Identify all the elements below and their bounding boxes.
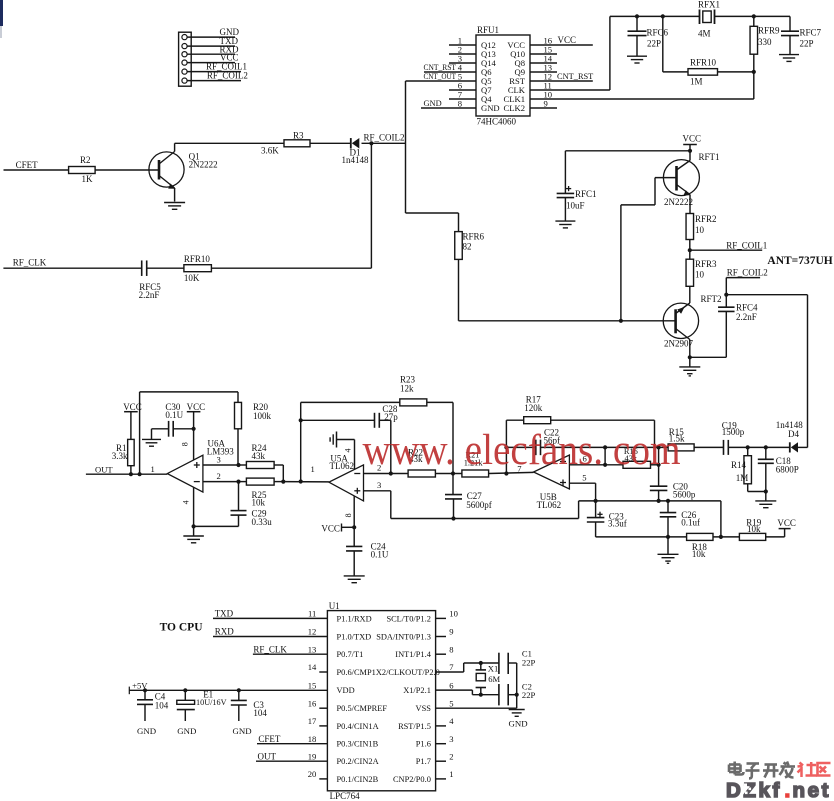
svg-text:P1.1/RXD: P1.1/RXD (337, 614, 372, 623)
node CNT_OUT at pin5 (406, 72, 477, 81)
wire CFET to R2 (4, 169, 69, 171)
svg-text:RF_COIL2: RF_COIL2 (727, 268, 768, 278)
wire U1 pin4 stub (436, 725, 446, 727)
junction dot U5B feedback takeoff (504, 471, 508, 475)
wire C19 to D4 (728, 446, 790, 448)
wire mid rail left drop (578, 501, 580, 519)
svg-text:1M: 1M (736, 473, 749, 483)
U5B pin6 number (583, 454, 588, 464)
resistor R22 43k (408, 447, 435, 477)
resistor RFR2 10 (686, 214, 716, 240)
node +5V (129, 680, 148, 694)
op-amp U6A LM393 (167, 438, 234, 492)
ground label at C4 (137, 726, 156, 736)
U1 right pin label P1.7 (416, 757, 431, 766)
label VCC (220, 53, 239, 63)
diode D1 1n4148 (342, 138, 370, 165)
svg-text:2.2nF: 2.2nF (736, 312, 757, 322)
wire pin3 down (390, 491, 392, 519)
junction dot C28 branch (299, 418, 303, 422)
svg-text:12k: 12k (400, 384, 414, 394)
svg-text:TO CPU: TO CPU (160, 622, 204, 634)
U1 right pin label SDA/INT0/P1.3 (376, 633, 431, 642)
svg-text:10: 10 (695, 225, 705, 235)
node OUT at pin19 (256, 751, 327, 761)
capacitor C1 22P (499, 649, 536, 675)
resistor R18 10k (687, 533, 713, 559)
crystal X1 6M (476, 663, 501, 695)
U1 right pin label P1.6 (416, 740, 431, 749)
svg-text:5: 5 (582, 473, 586, 483)
junction dot C26 bottom (666, 535, 670, 539)
RFU1 pin number 12 (544, 72, 553, 82)
svg-text:0.33u: 0.33u (252, 517, 273, 527)
wire RFU1 pin9 stub (530, 107, 557, 109)
resistor RFR6 82 (455, 231, 485, 259)
wire RFR6 to RFT2 base row (458, 259, 460, 320)
resistor R15 1.5k (659, 427, 695, 451)
label TO CPU (160, 622, 204, 634)
U1 pin number 19 (308, 751, 317, 761)
diode D4 1n4148 (776, 420, 804, 452)
svg-text:22P: 22P (800, 39, 814, 49)
resistor R14 1M (731, 447, 751, 491)
U1 left pin label P0.6/CMP1X2/CLKOUT/P2.0 (337, 668, 440, 677)
svg-text:10k: 10k (252, 498, 266, 508)
label RXD (220, 44, 240, 54)
node TXD (213, 609, 327, 619)
RFU1 pin number 13 (544, 63, 553, 73)
logo char qu (818, 763, 831, 776)
svg-text:CNT_RST: CNT_RST (424, 63, 457, 72)
svg-text:10U/16V: 10U/16V (196, 698, 227, 707)
ground sideways at U5A top (330, 432, 354, 470)
svg-text:P0.3/CIN1B: P0.3/CIN1B (337, 740, 379, 749)
U1 left pin label P0.7/T1 (337, 650, 364, 659)
svg-text:104: 104 (253, 708, 267, 718)
node CNT_RST at pin4 (424, 63, 477, 72)
capacitor C29 0.33u (231, 482, 273, 527)
junction dot VCC/RFT1 (688, 149, 692, 153)
svg-text:P1.7: P1.7 (416, 757, 431, 766)
capacitor C2 22P (499, 681, 536, 705)
svg-text:VCC: VCC (187, 402, 206, 412)
wire R24 right bend (282, 465, 284, 482)
svg-text:RST/P1.5: RST/P1.5 (398, 722, 431, 731)
U1 pin number 9 (449, 627, 453, 637)
wire C1 right (508, 663, 517, 708)
wire U1 pin7 to crystal (436, 663, 499, 672)
svg-text:RFR9: RFR9 (758, 25, 780, 35)
junction dot C28/pin2 (389, 471, 393, 475)
svg-text:6: 6 (449, 680, 454, 690)
wire U5B pin5 (569, 483, 595, 501)
junction dot U5A feedback takeoff (299, 479, 303, 483)
wire R3 to D1 (310, 142, 351, 144)
wire RFU1 pin16 VCC (530, 44, 593, 46)
wire VCC to RFC1 (565, 150, 690, 152)
wire feedback top (140, 391, 238, 393)
U1 left pin label P0.3/CIN1B (337, 740, 379, 749)
wire Q1 collector up (174, 143, 176, 151)
capacitor C27 5600pf (445, 491, 492, 518)
junction dot E1 (183, 688, 187, 692)
svg-text:4M: 4M (698, 29, 711, 39)
wire R18 to R19 (713, 536, 739, 538)
resistor R25 10k (239, 478, 284, 508)
scan artifact navy bar top-left corner (0, 0, 3, 38)
svg-text:5600pf: 5600pf (466, 500, 492, 510)
wire pin11 up to osc rail (609, 16, 611, 90)
RFU1 pin number 15 (544, 45, 553, 55)
resistor R24 43k (239, 443, 284, 469)
power VCC at R1 (123, 402, 142, 440)
wire feedback up (139, 392, 141, 474)
U5A pin4 marker (344, 449, 353, 453)
RFU1 pin number 16 (544, 36, 553, 46)
svg-text:R2: R2 (80, 155, 91, 165)
wire J1 pin1 GND (187, 36, 235, 38)
wire R2 to Q1 base (95, 169, 159, 171)
svg-text:RF_CLK: RF_CLK (253, 644, 287, 654)
svg-text:14: 14 (308, 662, 317, 672)
svg-text:P1.6: P1.6 (416, 740, 431, 749)
label RF_COIL2 net stub (727, 268, 768, 278)
wire mid rail right drop (720, 501, 722, 537)
wire RFT2 collector down (689, 340, 691, 358)
wire RFR10b branch down (663, 16, 688, 72)
wire osc top rail right (715, 15, 791, 17)
svg-text:RXD: RXD (215, 627, 235, 637)
resistor R2 (69, 155, 96, 184)
svg-text:SDA/INT0/P1.3: SDA/INT0/P1.3 (376, 633, 431, 642)
capacitor C28 27p (301, 404, 399, 428)
op-amp U5B TL062 (534, 455, 570, 510)
wire osc top rail left (610, 15, 700, 17)
ground label at C3 (233, 726, 252, 736)
capacitor RFC1 10uF polarized (557, 186, 597, 221)
ground at C18 (755, 492, 776, 508)
resistor RFR10 10K (184, 254, 212, 283)
svg-text:2.2nF: 2.2nF (139, 290, 160, 300)
resistor R19 10k (739, 518, 765, 541)
junction dot C18 top (764, 445, 768, 449)
U5B pin7 number (517, 464, 522, 474)
wire U1 pin1 stub (436, 778, 446, 780)
svg-text:8: 8 (449, 644, 453, 654)
junction dot RFC6 top (635, 14, 639, 18)
IC RFU1 74HC4060 body (476, 25, 530, 127)
svg-text:120k: 120k (524, 403, 543, 413)
U6A pin2 number (217, 471, 221, 481)
svg-text:CLK2: CLK2 (504, 103, 525, 113)
U1 left pin label P0.1/CIN2B (337, 775, 379, 784)
wire RFU1 pin1 stub (449, 44, 476, 46)
svg-text:P0.4/CIN1A: P0.4/CIN1A (337, 722, 379, 731)
svg-text:15: 15 (308, 680, 317, 690)
watermark www.elecfans.com (363, 427, 681, 474)
wire RFU1 pin7 stub (449, 98, 476, 100)
svg-text:8: 8 (344, 513, 353, 517)
svg-text:VCC: VCC (777, 518, 796, 528)
U1 pin number 3 (449, 734, 453, 744)
svg-text:RFC4: RFC4 (736, 302, 758, 312)
svg-text:P0.7/T1: P0.7/T1 (337, 650, 364, 659)
svg-text:3: 3 (377, 480, 381, 490)
ground label at E1 (177, 726, 196, 736)
RFU1 right pin label Q10 (510, 49, 525, 59)
svg-text:2N2222: 2N2222 (189, 160, 218, 170)
svg-text:net: net (793, 779, 832, 801)
wire CNT_OUT bend to RFR6 (406, 213, 459, 232)
ground at Q1 emitter (164, 203, 185, 210)
U5A pin2 number (377, 463, 381, 473)
svg-text:8: 8 (458, 99, 462, 109)
wire right edge column down to D4 (807, 295, 809, 448)
capacitor C18 6800P (758, 447, 799, 491)
wire C28 right down (390, 420, 392, 473)
junction dot R24/R25 (281, 480, 285, 484)
wire RFU1 pin3 stub (449, 62, 476, 64)
wire R16 to node (651, 464, 659, 466)
wire RF_COIL2 stub (726, 278, 760, 295)
capacitor C4 104 (137, 690, 169, 721)
wire +5V rail (129, 689, 327, 691)
RFU1 right pin label CLK2 (504, 103, 525, 113)
svg-text:D4: D4 (788, 429, 799, 439)
svg-text:3: 3 (449, 734, 453, 744)
wire bottom rail left (596, 536, 687, 538)
svg-text:R14: R14 (731, 460, 747, 470)
wire RFU1 pin12 CNT_RST (530, 80, 593, 82)
junction dot X1 bottom (479, 693, 483, 697)
label GND (220, 27, 240, 37)
RFU1 pin number 14 (544, 54, 553, 64)
wire Q1 emitter down (174, 188, 176, 202)
U1 pin number 13 (308, 644, 317, 654)
svg-text:8: 8 (181, 442, 190, 446)
wire RFR3 to RFT2 emitter (689, 286, 691, 303)
resistor RFR3 10 (686, 250, 717, 286)
RFU1 pin number 7 (458, 90, 463, 100)
junction dot RFT2 collector/ground (688, 355, 692, 359)
junction dot C26 top (666, 499, 670, 503)
wire U1 pin17 stub (319, 725, 327, 727)
U6A pin4 lead (181, 488, 193, 527)
svg-text:RFT1: RFT1 (699, 152, 720, 162)
RFU1 left pin label Q13 (481, 49, 496, 59)
junction dot R23/pin2 (451, 471, 455, 475)
wire RF_COIL2 to right edge column (726, 294, 807, 296)
junction dot pin6/C22 link (603, 463, 607, 467)
label RF_COIL1 net (726, 240, 767, 250)
wire R14 bottom to C18 bottom (748, 491, 766, 493)
svg-text:10k: 10k (747, 524, 761, 534)
ground at RFC6 (627, 56, 647, 63)
svg-text:U1: U1 (329, 601, 340, 611)
label VCC pin16 (558, 35, 577, 45)
RFU1 right pin label Q8 (514, 58, 525, 68)
wire U1 pin5 VSS (436, 707, 517, 709)
wire R23 down to pin2 row (452, 402, 454, 494)
junction dot RFR9 top (752, 14, 756, 18)
svg-text:VCC: VCC (321, 524, 340, 534)
junction dot RFT1 path on RFT2 base (619, 319, 623, 323)
junction dot feedback takeoff (138, 472, 142, 476)
node GND at pin8 (421, 99, 476, 108)
connector J1 body (179, 32, 192, 86)
wire U1 pin16 stub (319, 707, 327, 709)
wire RFR10 to junction column (212, 267, 372, 269)
wire RFT1 base lead (655, 177, 677, 179)
svg-text:0.1U: 0.1U (165, 410, 183, 420)
capacitor RFC6 22P (628, 16, 669, 55)
RFU1 pin number 1 (458, 36, 462, 46)
wire U6A pin3 (203, 464, 239, 466)
transistor RFT2 2N2907 (663, 294, 721, 349)
capacitor C20 5600p (650, 482, 696, 501)
svg-text:TXD: TXD (215, 609, 234, 619)
svg-text:5: 5 (449, 698, 453, 708)
junction dot RFR9/RFR10b (752, 70, 756, 74)
RFU1 left pin label Q7 (481, 85, 492, 95)
svg-text:1: 1 (449, 769, 453, 779)
node RF_CLK (13, 257, 47, 267)
svg-text:GND: GND (481, 103, 500, 113)
junction dot node/R16 row (657, 463, 661, 467)
wire U6A pin2 (203, 481, 239, 483)
wire RFR2 to junction (689, 240, 691, 251)
U1 pin number 12 (308, 627, 317, 637)
junction dot RFC4 top (724, 293, 728, 297)
svg-text:GND: GND (137, 726, 156, 736)
resistor R21 1.21k (462, 451, 489, 477)
svg-text:11: 11 (308, 609, 316, 619)
svg-text:RF_COIL1: RF_COIL1 (726, 240, 767, 250)
svg-text:1: 1 (151, 464, 155, 474)
wire J1 pin4 VCC (187, 62, 235, 64)
resistor R3 (261, 130, 310, 155)
svg-text:3: 3 (217, 455, 221, 465)
RFU1 left pin label Q5 (481, 76, 492, 86)
svg-text:16: 16 (308, 698, 317, 708)
svg-text:3.3uf: 3.3uf (608, 519, 627, 529)
svg-text:RF_CLK: RF_CLK (13, 257, 47, 267)
svg-text:10k: 10k (692, 549, 706, 559)
wire RFC4 bottom to RFT2 collector node (690, 356, 727, 358)
svg-text:GND: GND (233, 726, 252, 736)
connector J1 pin circles (182, 35, 187, 84)
svg-text:7: 7 (449, 662, 454, 672)
wire R22 to R21 (435, 473, 462, 475)
wire RFU1 pin10 (530, 98, 754, 100)
wire Q1 collector to R3 (175, 142, 284, 144)
U1 right pin label CNP2/P0.0 (393, 775, 431, 784)
RFU1 pin number 10 (544, 90, 553, 100)
node OUT (95, 464, 113, 474)
wire RFU1 pin11 CLK (530, 89, 610, 91)
wire U1 pin8 stub (436, 653, 446, 655)
junction dot C20 bottom (657, 499, 661, 503)
svg-text:P0.5/CMPREF: P0.5/CMPREF (337, 704, 388, 713)
node CFET (16, 160, 39, 170)
logo text DZkf.net (726, 779, 831, 801)
ground at RFC7 (779, 55, 799, 62)
wire RFT1 emitter down (689, 195, 691, 214)
capacitor C26 0.1uf (660, 501, 700, 537)
U6A pin8 marker (181, 442, 190, 446)
junction dot pin2/C29 (236, 480, 240, 484)
ground at RFC1 (555, 221, 575, 228)
U1 pin number 2 (449, 751, 453, 761)
junction dot R14 top (746, 445, 750, 449)
svg-text:OUT: OUT (95, 464, 113, 474)
resistor R20 100k (235, 392, 272, 465)
capacitor C3 104 (231, 690, 268, 721)
junction dot node/R15 row (657, 445, 661, 449)
U1 right pin label SCL/T0/P1.2 (386, 614, 430, 623)
svg-text:19: 19 (308, 751, 317, 761)
ground at VSS (509, 710, 525, 717)
svg-text:SCL/T0/P1.2: SCL/T0/P1.2 (386, 614, 430, 623)
svg-text:100k: 100k (253, 411, 272, 421)
node RF_CLK (253, 644, 328, 654)
RFU1 left pin label Q6 (481, 67, 492, 77)
wire bottom rail U5A (391, 518, 579, 520)
node CFET at pin18 (257, 734, 327, 744)
svg-text:ANT=737UH: ANT=737UH (767, 255, 832, 267)
RFU1 left pin label GND (481, 103, 500, 113)
wire to U5A (283, 481, 329, 483)
svg-text:R3: R3 (293, 130, 304, 140)
U5A pin1 number (311, 464, 315, 474)
svg-text:VCC: VCC (558, 35, 577, 45)
junction dot pin5/mid rail (594, 499, 598, 503)
RFU1 pin number 3 (458, 54, 462, 64)
svg-text:DZkf: DZkf (726, 779, 782, 801)
svg-text:9: 9 (449, 627, 453, 637)
power VCC at RFT1 (683, 133, 702, 151)
ground at bottom rail (658, 537, 679, 563)
U1 right pin label VSS (416, 704, 432, 713)
wire C2 right (508, 694, 517, 696)
resistor R23 12k (301, 375, 453, 406)
svg-text:1K: 1K (82, 174, 94, 184)
wire RFC1 top lead (564, 151, 566, 194)
junction dot U6A pin4/ground (192, 524, 196, 528)
svg-text:CFET: CFET (258, 734, 281, 744)
U1 pin number 10 (449, 609, 458, 619)
U1 pin number 17 (308, 716, 317, 726)
svg-text:VDD: VDD (337, 686, 355, 695)
U1 left pin label P1.1/RXD (337, 614, 372, 623)
ground at RFT2 (679, 357, 700, 376)
crystal RFX1 4M (698, 0, 720, 39)
svg-text:1n4148: 1n4148 (342, 155, 370, 165)
wire mid rail (579, 500, 721, 502)
wire RFT1 collector (689, 151, 691, 161)
resistor RFR9 330 (750, 16, 780, 54)
junction dot RF_COIL2/D1 (369, 141, 373, 145)
capacitor C30 0.1U (165, 402, 183, 437)
wire R19 to VCC (766, 529, 785, 537)
junction dot RFR10b branch (661, 14, 665, 18)
U1 left pin label P0.4/CIN1A (337, 722, 379, 731)
svg-text:4: 4 (344, 449, 353, 453)
svg-text:43k: 43k (252, 451, 266, 461)
wire RF_CLK to RFC5 (3, 267, 141, 269)
RFU1 right pin label RST (509, 76, 526, 86)
